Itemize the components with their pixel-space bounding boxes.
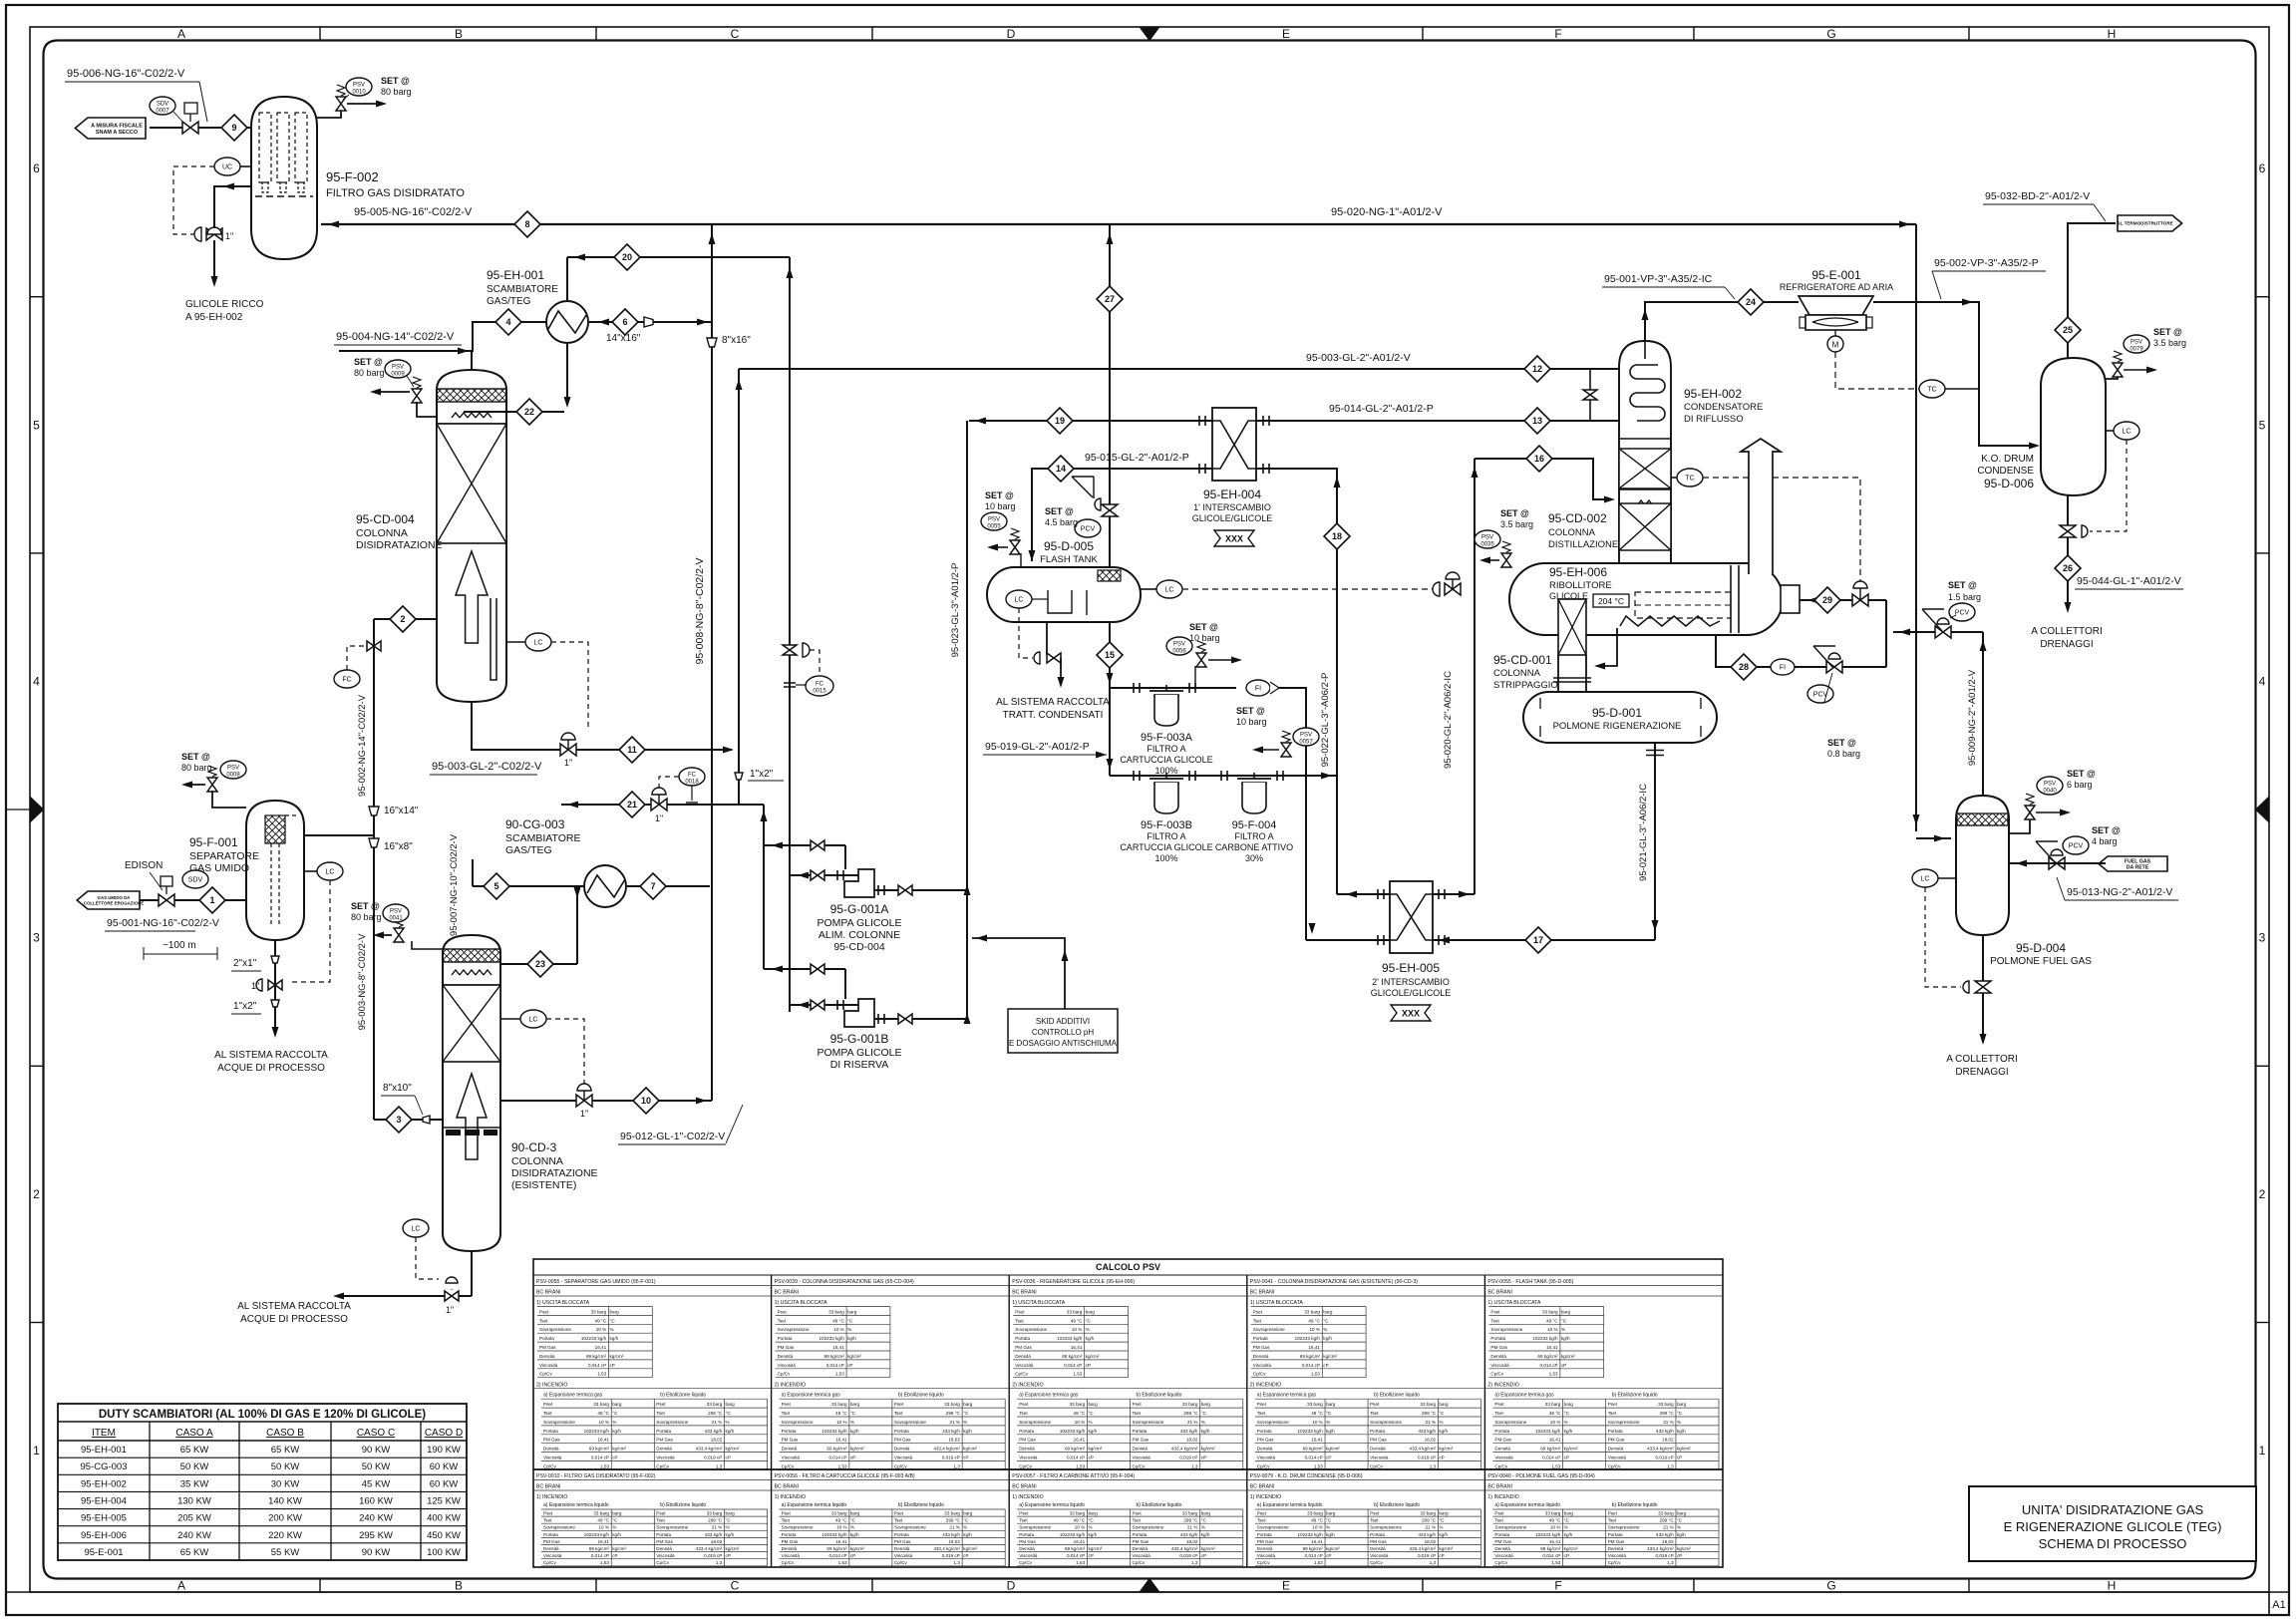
- wire FI to riser x=1310: [1279, 688, 1306, 940]
- svg-text:95-001-VP-3"-A35/2-IC: 95-001-VP-3"-A35/2-IC: [1604, 273, 1713, 285]
- svg-text:~100 m: ~100 m: [163, 940, 196, 951]
- svg-text:80 barg: 80 barg: [181, 763, 212, 773]
- svg-text:Pset: Pset: [1370, 1402, 1380, 1407]
- svg-text:95-002-VP-3"-A35/2-P: 95-002-VP-3"-A35/2-P: [1934, 257, 2039, 269]
- grid tick left: [30, 552, 44, 554]
- svg-text:PM Gas: PM Gas: [1253, 1345, 1270, 1350]
- svg-text:kg/h: kg/h: [1201, 1429, 1210, 1434]
- svg-text:Tset: Tset: [1019, 1518, 1028, 1523]
- svg-text:Pset: Pset: [656, 1511, 666, 1516]
- svg-text:AL SISTEMA RACCOLTA: AL SISTEMA RACCOLTA: [237, 1301, 351, 1312]
- svg-text:kg/cm²: kg/cm²: [1564, 1447, 1578, 1452]
- svg-text:1,53: 1,53: [597, 1372, 606, 1377]
- svg-text:140 KW: 140 KW: [268, 1496, 302, 1507]
- KO drum drain: [2067, 495, 2069, 607]
- svg-text:barg: barg: [1326, 1402, 1336, 1407]
- svg-text:G: G: [1826, 27, 1835, 41]
- svg-text:Cp/Cv: Cp/Cv: [543, 1463, 556, 1468]
- svg-text:95-D-006: 95-D-006: [1984, 477, 2034, 490]
- wire LC dashed to drain valve: [2090, 440, 2127, 531]
- svg-text:POMPA GLICOLE: POMPA GLICOLE: [818, 1047, 902, 1059]
- svg-text:102233 kg/h: 102233 kg/h: [1297, 1532, 1323, 1537]
- wire LC dashed to valve 10: [546, 1019, 584, 1086]
- svg-text:0,014 cP: 0,014 cP: [591, 1553, 609, 1558]
- reboiler heating element zigzag: [1620, 616, 1720, 626]
- svg-text:10 %: 10 %: [1550, 1525, 1560, 1530]
- grid tick top: [1968, 27, 1970, 41]
- svg-text:SDV: SDV: [157, 102, 168, 108]
- svg-text:1": 1": [225, 231, 233, 241]
- valve LV flash liquid: [1445, 583, 1461, 595]
- grid tick right: [2256, 809, 2270, 810]
- svg-text:Sovrapressione: Sovrapressione: [1133, 1525, 1164, 1530]
- wire LC dashed lower: [416, 1237, 439, 1279]
- svg-text:28: 28: [1739, 662, 1749, 672]
- svg-text:kg/cm²: kg/cm²: [726, 1447, 740, 1452]
- svg-text:299 °C: 299 °C: [1660, 1411, 1675, 1416]
- svg-text:%: %: [1323, 1327, 1327, 1332]
- instrument FI 28: [1771, 659, 1795, 675]
- svg-text:Viscosità: Viscosità: [1608, 1553, 1627, 1558]
- svg-text:Sovrapressione: Sovrapressione: [543, 1420, 575, 1425]
- wire 16 line: [1475, 459, 1611, 499]
- grid tick left: [30, 296, 44, 298]
- svg-text:Sovrapressione: Sovrapressione: [543, 1525, 575, 1530]
- svg-text:Tset: Tset: [1133, 1518, 1142, 1523]
- svg-text:433,4 kg/cm²: 433,4 kg/cm²: [1171, 1447, 1198, 1452]
- svg-text:EDISON: EDISON: [125, 860, 163, 871]
- svg-text:CARTUCCIA GLICOLE: CARTUCCIA GLICOLE: [1120, 755, 1212, 765]
- svg-text:PSV-0039 - COLONNA DISIDRATAZI: PSV-0039 - COLONNA DISIDRATAZIONE GAS (9…: [775, 1279, 914, 1285]
- svg-text:102233 kg/h: 102233 kg/h: [1532, 1336, 1558, 1341]
- svg-text:Cp/Cv: Cp/Cv: [778, 1372, 791, 1377]
- reboiler right chamber: [1730, 565, 1732, 633]
- svg-text:0,014 cP: 0,014 cP: [1064, 1363, 1082, 1368]
- svg-text:16,41: 16,41: [1074, 1438, 1086, 1443]
- svg-text:kg/h: kg/h: [1201, 1532, 1210, 1537]
- svg-text:60 KW: 60 KW: [430, 1461, 459, 1472]
- svg-text:2) INCENDIO: 2) INCENDIO: [775, 1383, 806, 1389]
- instrument SDV inlet: [182, 870, 208, 888]
- svg-text:295 KW: 295 KW: [359, 1530, 393, 1541]
- reducer 14x16: [644, 317, 653, 327]
- svg-text:SET @: SET @: [2067, 769, 2096, 779]
- svg-text:Densità: Densità: [1608, 1546, 1624, 1551]
- svg-text:240 KW: 240 KW: [359, 1513, 393, 1524]
- svg-text:cP: cP: [1086, 1363, 1091, 1368]
- wire fuel gas makeup: [2009, 862, 2106, 864]
- svg-text:Viscosità: Viscosità: [1019, 1553, 1038, 1558]
- svg-text:0,014 cP: 0,014 cP: [1302, 1363, 1320, 1368]
- svg-text:205 KW: 205 KW: [177, 1513, 211, 1524]
- svg-text:190 KW: 190 KW: [427, 1445, 461, 1456]
- svg-text:433 kg/h: 433 kg/h: [1656, 1429, 1674, 1434]
- svg-text:Densità: Densità: [1490, 1354, 1506, 1359]
- svg-text:102233 kg/h: 102233 kg/h: [1057, 1336, 1083, 1341]
- instrument LC KO drum: [2114, 422, 2139, 440]
- svg-text:E DOSAGGIO ANTISCHIUMA: E DOSAGGIO ANTISCHIUMA: [1009, 1039, 1118, 1048]
- relief PSV-0057: [1281, 743, 1291, 757]
- svg-text:TC: TC: [1685, 476, 1694, 483]
- svg-text:Pset: Pset: [1019, 1511, 1029, 1516]
- svg-text:Sovrapressione: Sovrapressione: [1608, 1420, 1640, 1425]
- svg-text:16,41: 16,41: [1308, 1345, 1320, 1350]
- svg-text:433 kg/h: 433 kg/h: [1180, 1429, 1198, 1434]
- svg-text:Pset: Pset: [782, 1511, 792, 1516]
- svg-text:0,014 cP: 0,014 cP: [826, 1363, 844, 1368]
- svg-text:Tset: Tset: [1608, 1518, 1617, 1523]
- svg-text:FC: FC: [816, 682, 824, 688]
- svg-text:130 KW: 130 KW: [177, 1496, 211, 1507]
- svg-text:CARBONE ATTIVO: CARBONE ATTIVO: [1215, 842, 1293, 852]
- node diamond 29: [1814, 587, 1840, 613]
- svg-text:49 °C: 49 °C: [1549, 1411, 1561, 1416]
- svg-text:Pset: Pset: [1494, 1511, 1504, 1516]
- svg-text:kg/h: kg/h: [726, 1429, 735, 1434]
- svg-text:Tset: Tset: [1133, 1411, 1142, 1416]
- node diamond 23: [527, 951, 553, 977]
- relief valve PSV-0010: [336, 97, 346, 111]
- svg-text:%: %: [1326, 1420, 1330, 1425]
- svg-text:50 KW: 50 KW: [362, 1461, 391, 1472]
- svg-text:%: %: [1564, 1420, 1568, 1425]
- svg-text:20: 20: [622, 252, 632, 262]
- svg-text:Cp/Cv: Cp/Cv: [1370, 1560, 1383, 1565]
- svg-text:A: A: [177, 27, 185, 41]
- svg-text:kg/cm²: kg/cm²: [850, 1546, 864, 1551]
- svg-text:LC: LC: [412, 1226, 421, 1233]
- svg-text:PSV-0010 - FILTRO GAS DISIDRAT: PSV-0010 - FILTRO GAS DISIDRATATO (95-F-…: [536, 1473, 656, 1479]
- svg-text:cP: cP: [1439, 1456, 1444, 1460]
- svg-text:69 kg/cm²: 69 kg/cm²: [1065, 1546, 1086, 1551]
- node diamond 19: [1047, 408, 1073, 434]
- svg-text:Cp/Cv: Cp/Cv: [1015, 1372, 1028, 1377]
- svg-text:1) USCITA BLOCCATA: 1) USCITA BLOCCATA: [775, 1300, 828, 1306]
- grid tick left: [30, 1322, 44, 1324]
- svg-text:Densità: Densità: [1133, 1546, 1148, 1551]
- svg-text:LC: LC: [529, 1017, 538, 1024]
- svg-text:Pset: Pset: [656, 1402, 666, 1407]
- svg-text:kg/cm²: kg/cm²: [850, 1447, 864, 1452]
- svg-text:1,53: 1,53: [600, 1463, 609, 1468]
- svg-text:95-EH-006: 95-EH-006: [1549, 565, 1607, 579]
- wire 14 to flash tank: [1032, 469, 1212, 561]
- svg-text:SET @: SET @: [354, 357, 383, 367]
- svg-text:220 KW: 220 KW: [268, 1530, 302, 1541]
- svg-text:10 %: 10 %: [1550, 1420, 1560, 1425]
- wire corner into fuel-gas spur: [1899, 221, 1910, 228]
- grid tick bottom: [871, 1579, 873, 1593]
- svg-text:(ESISTENTE): (ESISTENTE): [511, 1179, 576, 1191]
- svg-text:0.8 barg: 0.8 barg: [1827, 749, 1860, 759]
- svg-text:Sovrapressione: Sovrapressione: [1253, 1327, 1285, 1332]
- svg-text:16,41: 16,41: [597, 1438, 609, 1443]
- svg-text:GLICOLE/GLICOLE: GLICOLE/GLICOLE: [1371, 988, 1452, 998]
- svg-text:Cp/Cv: Cp/Cv: [1019, 1560, 1032, 1565]
- wire riser x=1113 (27): [1109, 224, 1111, 567]
- svg-text:cP: cP: [726, 1553, 731, 1558]
- svg-text:kg/h: kg/h: [1564, 1429, 1573, 1434]
- wire EH-001 outlet y=323 to riser x=714: [588, 321, 712, 323]
- svg-text:Sovrapressione: Sovrapressione: [1608, 1525, 1640, 1530]
- svg-text:Densità: Densità: [543, 1447, 559, 1452]
- node diamond 6: [612, 309, 638, 335]
- svg-text:33 barg: 33 barg: [1182, 1511, 1198, 1516]
- svg-text:cP: cP: [1326, 1553, 1331, 1558]
- svg-text:LC: LC: [1921, 876, 1930, 883]
- svg-text:299 °C: 299 °C: [708, 1518, 723, 1523]
- svg-text:kg/cm²: kg/cm²: [1201, 1546, 1215, 1551]
- svg-text:15: 15: [1105, 650, 1115, 660]
- EH-005 flanges: [1377, 889, 1379, 899]
- svg-text:18: 18: [1332, 531, 1342, 541]
- svg-text:cP: cP: [1677, 1553, 1682, 1558]
- svg-text:a) Espansione termica gas: a) Espansione termica gas: [1019, 1393, 1079, 1399]
- svg-text:102233 kg/h: 102233 kg/h: [821, 1429, 847, 1434]
- svg-text:95-CD-004: 95-CD-004: [356, 512, 415, 526]
- svg-text:Sovrapressione: Sovrapressione: [894, 1525, 926, 1530]
- svg-text:18,02: 18,02: [1425, 1539, 1437, 1544]
- svg-text:Cp/Cv: Cp/Cv: [1494, 1560, 1507, 1565]
- svg-text:55 KW: 55 KW: [271, 1547, 300, 1558]
- grid tick right: [2256, 1322, 2270, 1324]
- svg-text:433 kg/h: 433 kg/h: [705, 1532, 723, 1537]
- svg-text:Portata: Portata: [1257, 1532, 1272, 1537]
- svg-text:Viscosità: Viscosità: [1253, 1363, 1272, 1368]
- svg-text:6: 6: [33, 162, 40, 175]
- wire 95-005-NG main gas line y=222: [321, 223, 1916, 225]
- svg-text:1,3: 1,3: [716, 1560, 723, 1565]
- svg-text:95-012-GL-1"-C02/2-V: 95-012-GL-1"-C02/2-V: [620, 1131, 725, 1142]
- svg-text:1' INTERSCAMBIO: 1' INTERSCAMBIO: [1193, 502, 1271, 512]
- svg-text:49 °C: 49 °C: [835, 1411, 847, 1416]
- svg-text:Pset: Pset: [1608, 1402, 1618, 1407]
- svg-text:10 %: 10 %: [596, 1327, 606, 1332]
- svg-text:kg/h: kg/h: [1677, 1429, 1686, 1434]
- svg-text:69 kg/cm²: 69 kg/cm²: [1300, 1354, 1321, 1359]
- grid tick bottom: [1968, 1579, 1970, 1593]
- bottom margin line: [6, 1591, 2289, 1593]
- svg-text:33 barg: 33 barg: [707, 1511, 723, 1516]
- svg-text:2: 2: [33, 1187, 40, 1201]
- exchanger 95-EH-005: [1390, 881, 1433, 953]
- svg-text:433,4 kg/cm²: 433,4 kg/cm²: [696, 1546, 723, 1551]
- flag GAS UMIDO DA COLLETTORE EROGAZIONE: [77, 891, 140, 909]
- svg-text:Densità: Densità: [1257, 1447, 1273, 1452]
- svg-text:Cp/Cv: Cp/Cv: [1133, 1560, 1146, 1565]
- svg-text:ACQUE DI PROCESSO: ACQUE DI PROCESSO: [240, 1314, 348, 1325]
- instrument LC flash internal: [1006, 590, 1032, 608]
- svg-text:4 barg: 4 barg: [2092, 836, 2118, 846]
- svg-text:69 kg/cm²: 69 kg/cm²: [1303, 1447, 1324, 1452]
- svg-text:XXX: XXX: [1225, 534, 1243, 544]
- wire riser x=792 to pumps: [789, 257, 791, 1012]
- instrument PCV (1.5 barg): [1949, 603, 1975, 621]
- svg-text:433 kg/h: 433 kg/h: [705, 1429, 723, 1434]
- svg-text:10: 10: [641, 1096, 651, 1106]
- svg-text:0,019 cP: 0,019 cP: [942, 1456, 960, 1460]
- svg-text:CONDENSATORE: CONDENSATORE: [1684, 402, 1763, 413]
- svg-text:kg/cm²: kg/cm²: [1201, 1447, 1215, 1452]
- svg-text:0,019 cP: 0,019 cP: [1656, 1456, 1674, 1460]
- svg-text:2) INCENDIO: 2) INCENDIO: [1012, 1383, 1043, 1389]
- svg-text:PM Gas: PM Gas: [782, 1539, 799, 1544]
- svg-text:95-E-001: 95-E-001: [1811, 268, 1861, 282]
- svg-text:Sovrapressione: Sovrapressione: [1257, 1525, 1289, 1530]
- svg-text:9: 9: [231, 123, 236, 133]
- grid tick bottom: [595, 1579, 597, 1593]
- svg-text:SET @: SET @: [985, 490, 1014, 500]
- svg-text:49 °C: 49 °C: [597, 1518, 609, 1523]
- svg-text:33 barg: 33 barg: [1307, 1402, 1323, 1407]
- svg-text:0,019 cP: 0,019 cP: [1179, 1456, 1197, 1460]
- svg-text:Portata: Portata: [1019, 1429, 1034, 1434]
- svg-text:1,53: 1,53: [1549, 1372, 1558, 1377]
- svg-text:204 °C: 204 °C: [1598, 596, 1624, 606]
- svg-text:%: %: [726, 1525, 730, 1530]
- svg-text:Portata: Portata: [778, 1336, 793, 1341]
- svg-text:102233 kg/h: 102233 kg/h: [819, 1336, 844, 1341]
- svg-text:BC BRANI: BC BRANI: [1250, 1484, 1275, 1490]
- svg-text:Tset: Tset: [1608, 1411, 1617, 1416]
- svg-text:16,41: 16,41: [1546, 1345, 1558, 1350]
- svg-text:16"x8": 16"x8": [384, 841, 413, 852]
- svg-text:1,3: 1,3: [1430, 1463, 1437, 1468]
- node diamond 15: [1097, 642, 1123, 668]
- wire vertical x=375 (95-002/95-003): [373, 619, 375, 1120]
- node diamond 7: [640, 873, 666, 899]
- svg-text:b) Ebollizione liquido: b) Ebollizione liquido: [898, 1502, 944, 1508]
- wire 12 line to coil: [967, 368, 1619, 370]
- svg-text:17: 17: [1533, 935, 1543, 945]
- svg-text:95-021-GL-3"-A06/2-IC: 95-021-GL-3"-A06/2-IC: [1638, 784, 1649, 881]
- svg-text:H: H: [2108, 1579, 2117, 1593]
- svg-text:0,014 cP: 0,014 cP: [1067, 1456, 1085, 1460]
- svg-text:5: 5: [33, 418, 40, 432]
- svg-text:Densità: Densità: [778, 1354, 794, 1359]
- svg-text:95-E-001: 95-E-001: [84, 1547, 123, 1558]
- centering mark left: [30, 797, 44, 822]
- svg-text:1,53: 1,53: [1314, 1560, 1323, 1565]
- instrument FI filters: [1246, 680, 1270, 696]
- svg-text:°C: °C: [1564, 1518, 1570, 1523]
- svg-text:1,3: 1,3: [953, 1560, 960, 1565]
- KO drum 95-D-006: [2041, 358, 2106, 495]
- svg-text:°C: °C: [1439, 1518, 1445, 1523]
- instrument PSV 0055: [981, 512, 1007, 530]
- svg-text:0057: 0057: [1299, 740, 1313, 746]
- wire EH-001 top to line 20: [566, 257, 568, 301]
- svg-text:299 °C: 299 °C: [1183, 1411, 1198, 1416]
- valve LV glicole ricco: [206, 228, 222, 240]
- relief PSV-0008 on separator: [207, 778, 217, 792]
- svg-text:kg/cm²: kg/cm²: [1439, 1447, 1453, 1452]
- svg-text:barg: barg: [1677, 1402, 1687, 1407]
- svg-text:0,014 cP: 0,014 cP: [1305, 1553, 1323, 1558]
- svg-text:Portata: Portata: [1494, 1429, 1509, 1434]
- svg-text:PSV: PSV: [2131, 340, 2142, 346]
- svg-text:0,019 cP: 0,019 cP: [1418, 1456, 1436, 1460]
- svg-text:Viscosità: Viscosità: [1133, 1553, 1151, 1558]
- temperature box 204 C: [1593, 594, 1629, 607]
- svg-text:Cp/Cv: Cp/Cv: [1019, 1463, 1032, 1468]
- svg-text:°C: °C: [612, 1411, 618, 1416]
- svg-text:FC: FC: [688, 773, 697, 779]
- svg-text:7: 7: [650, 881, 655, 891]
- svg-text:0,019 cP: 0,019 cP: [1179, 1553, 1197, 1558]
- centering mark bottom: [1140, 1579, 1159, 1593]
- title block: [1969, 1486, 2256, 1561]
- svg-text:BC BRANI: BC BRANI: [775, 1484, 800, 1490]
- node diamond 11: [619, 737, 645, 763]
- heat exchanger 95-EH-001: [546, 301, 588, 343]
- svg-text:Pset: Pset: [539, 1309, 549, 1314]
- svg-text:21 %: 21 %: [1187, 1420, 1197, 1425]
- svg-text:69 kg/cm²: 69 kg/cm²: [826, 1447, 847, 1452]
- svg-text:95-CD-001: 95-CD-001: [1493, 653, 1552, 667]
- PSV calc section 1 bottom: [533, 1468, 1723, 1470]
- svg-text:49 °C: 49 °C: [1074, 1411, 1086, 1416]
- flag FUEL GAS DA RETE: [2099, 856, 2167, 871]
- svg-text:H: H: [2108, 27, 2117, 41]
- svg-text:1,53: 1,53: [1076, 1560, 1085, 1565]
- svg-text:0,014 cP: 0,014 cP: [1067, 1553, 1085, 1558]
- node diamond 24: [1738, 289, 1764, 315]
- separator 95-F-001: [246, 801, 304, 940]
- svg-text:PM Gas: PM Gas: [782, 1438, 799, 1443]
- svg-text:cP: cP: [850, 1553, 855, 1558]
- node diamond 4: [495, 309, 521, 335]
- svg-text:102233 kg/h: 102233 kg/h: [821, 1532, 847, 1537]
- svg-text:DA RETE: DA RETE: [2127, 865, 2149, 871]
- svg-text:%: %: [1088, 1525, 1092, 1530]
- svg-text:0,014 cP: 0,014 cP: [1305, 1456, 1323, 1460]
- instrument SDV 0007: [150, 97, 175, 115]
- svg-text:PSV: PSV: [1300, 733, 1312, 739]
- svg-text:0,014 cP: 0,014 cP: [1539, 1363, 1557, 1368]
- svg-text:Sovrapressione: Sovrapressione: [1019, 1525, 1051, 1530]
- svg-text:Cp/Cv: Cp/Cv: [656, 1560, 669, 1565]
- svg-text:REFRIGERATORE AD ARIA: REFRIGERATORE AD ARIA: [1780, 282, 1893, 292]
- svg-text:Portata: Portata: [1019, 1532, 1034, 1537]
- svg-text:Tset: Tset: [782, 1411, 791, 1416]
- svg-text:kg/h: kg/h: [963, 1429, 972, 1434]
- svg-text:12: 12: [1532, 364, 1542, 374]
- svg-text:C: C: [731, 1579, 740, 1593]
- svg-text:433,4 kg/cm²: 433,4 kg/cm²: [1647, 1447, 1674, 1452]
- svg-text:21 %: 21 %: [712, 1525, 722, 1530]
- svg-text:Tset: Tset: [539, 1318, 548, 1323]
- svg-text:Portata: Portata: [1608, 1532, 1623, 1537]
- node diamond 3: [386, 1107, 412, 1133]
- svg-text:°C: °C: [850, 1411, 856, 1416]
- svg-text:GAS/TEG: GAS/TEG: [505, 844, 552, 856]
- PSV calc section 4 bottom: [533, 1468, 1723, 1470]
- wire UC dashed control: [173, 166, 214, 234]
- svg-text:Viscosità: Viscosità: [782, 1553, 801, 1558]
- svg-text:CONDENSE: CONDENSE: [1977, 466, 2034, 477]
- svg-text:Viscosità: Viscosità: [1257, 1553, 1276, 1558]
- svg-text:barg: barg: [1561, 1309, 1571, 1314]
- svg-text:PSV-0056 - FILTRO A CARTUCCIA: PSV-0056 - FILTRO A CARTUCCIA GLICOLE (9…: [775, 1473, 915, 1479]
- svg-text:°C: °C: [1564, 1411, 1570, 1416]
- svg-text:PM Gas: PM Gas: [894, 1438, 911, 1443]
- svg-text:cP: cP: [850, 1456, 855, 1460]
- svg-text:16,41: 16,41: [1549, 1438, 1561, 1443]
- svg-text:0040: 0040: [2043, 789, 2057, 795]
- svg-text:kg/h: kg/h: [1323, 1336, 1332, 1341]
- svg-text:1,3: 1,3: [1667, 1463, 1674, 1468]
